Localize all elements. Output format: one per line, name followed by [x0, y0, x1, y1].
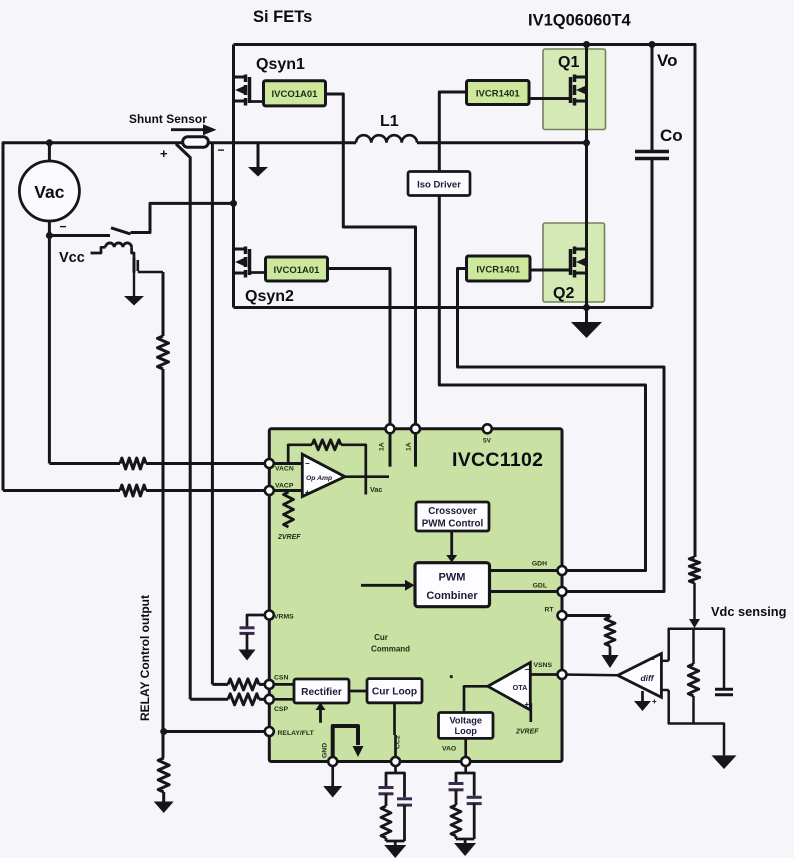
svg-text:Vac: Vac: [370, 485, 382, 494]
svg-text:VSNS: VSNS: [533, 662, 552, 669]
svg-text:+: +: [652, 697, 657, 706]
svg-text:Co: Co: [660, 126, 683, 145]
svg-text:−: −: [650, 655, 655, 664]
svg-text:−: −: [305, 459, 310, 468]
svg-text:Q1: Q1: [558, 54, 579, 71]
svg-text:CC2: CC2: [395, 735, 402, 749]
svg-text:2VREF: 2VREF: [277, 534, 301, 541]
svg-text:Vac: Vac: [34, 182, 64, 202]
svg-text:RELAY Control output: RELAY Control output: [138, 595, 152, 721]
svg-text:1A: 1A: [379, 442, 386, 451]
svg-text:Combiner: Combiner: [426, 590, 478, 602]
svg-text:PWM Control: PWM Control: [422, 519, 484, 530]
svg-text:diff: diff: [640, 673, 654, 683]
svg-text:VRMS: VRMS: [274, 614, 294, 621]
svg-text:VACP: VACP: [275, 483, 294, 490]
svg-text:Op Amp: Op Amp: [306, 475, 332, 482]
svg-text:Cur Loop: Cur Loop: [372, 687, 417, 698]
svg-text:Loop: Loop: [454, 726, 477, 736]
svg-text:−: −: [525, 665, 530, 674]
svg-text:IVCR1401: IVCR1401: [476, 265, 521, 276]
svg-text:Shunt Sensor: Shunt Sensor: [129, 112, 207, 126]
svg-text:+: +: [305, 488, 310, 497]
svg-text:VACN: VACN: [275, 466, 294, 473]
svg-text:GND: GND: [322, 743, 329, 758]
svg-text:5V: 5V: [483, 438, 492, 445]
svg-text:Crossover: Crossover: [428, 506, 477, 517]
svg-text:+: +: [525, 700, 530, 709]
svg-text:L1: L1: [380, 113, 399, 130]
svg-text:PWM: PWM: [439, 572, 466, 584]
svg-text:RT: RT: [544, 607, 554, 614]
svg-text:Vdc sensing: Vdc sensing: [711, 604, 786, 619]
svg-text:OTA: OTA: [513, 683, 528, 692]
svg-text:Vo: Vo: [657, 51, 677, 70]
svg-text:Command: Command: [371, 645, 410, 654]
svg-text:VAO: VAO: [442, 746, 456, 753]
svg-text:CSP: CSP: [274, 706, 288, 713]
svg-text:GDL: GDL: [533, 583, 547, 590]
svg-text:Iso Driver: Iso Driver: [417, 180, 461, 191]
svg-text:Rectifier: Rectifier: [301, 687, 342, 698]
svg-text:IVCC1102: IVCC1102: [452, 449, 543, 471]
svg-text:GDH: GDH: [532, 561, 547, 568]
svg-text:+: +: [160, 146, 168, 161]
svg-text:RELAY/FLT: RELAY/FLT: [278, 730, 315, 737]
svg-text:Voltage: Voltage: [449, 716, 482, 726]
svg-text:−: −: [60, 220, 67, 234]
svg-text:IVCO1A01: IVCO1A01: [274, 265, 321, 276]
svg-text:IV1Q06060T4: IV1Q06060T4: [528, 12, 632, 30]
svg-text:Q2: Q2: [553, 285, 574, 302]
svg-text:−: −: [218, 143, 225, 157]
svg-text:2VREF: 2VREF: [515, 729, 539, 736]
svg-text:Vcc: Vcc: [59, 250, 85, 266]
svg-text:Qsyn2: Qsyn2: [245, 288, 294, 305]
svg-text:1A: 1A: [406, 442, 413, 451]
svg-text:Si FETs: Si FETs: [253, 8, 312, 26]
svg-text:IVCR1401: IVCR1401: [476, 89, 521, 100]
svg-text:IVCO1A01: IVCO1A01: [272, 89, 319, 100]
svg-text:Cur: Cur: [374, 633, 388, 642]
svg-text:CSN: CSN: [274, 675, 288, 682]
svg-text:Qsyn1: Qsyn1: [256, 56, 305, 73]
